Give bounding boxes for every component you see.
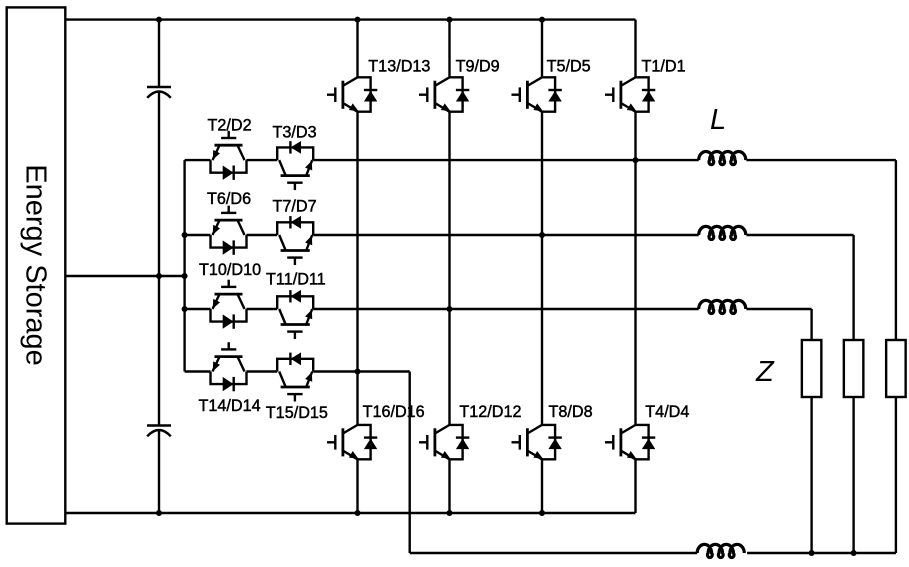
- wire column 2 bottom: [448, 459, 450, 513]
- junction dot bottom rail Z1: [809, 550, 815, 556]
- svg-text:T11/D11: T11/D11: [266, 270, 326, 288]
- wire Z1 bottom lead: [810, 397, 812, 553]
- junction dot bottom rail Z2: [851, 550, 857, 556]
- wire row 2 bus to T6: [185, 234, 211, 236]
- igbt T13/D13: [327, 77, 377, 111]
- junction dot row4 col1: [355, 369, 361, 375]
- wire row 2 inductor to corner: [746, 234, 853, 236]
- wire Z3 bottom lead: [895, 397, 897, 553]
- wire column 3 bottom: [541, 459, 543, 513]
- wire row 4 T15 to step: [313, 370, 410, 372]
- wire bottom DC- rail: [65, 512, 635, 514]
- resistor Z2: [844, 340, 864, 397]
- wire capacitor rail lower: [158, 431, 160, 513]
- wire column 4 top: [634, 20, 636, 78]
- wire mid feed from energy storage: [65, 275, 184, 277]
- wire row 1 bus to T2: [185, 159, 211, 161]
- svg-text:T9/D9: T9/D9: [456, 58, 500, 76]
- wire row 2 down to Z2: [852, 235, 854, 340]
- wire row 1 T2 to T3: [246, 159, 277, 161]
- wire capacitor rail upper: [158, 20, 160, 87]
- igbt T15/D15: [277, 352, 313, 401]
- junction dot bottom rail col3: [539, 510, 545, 516]
- inductor L phase 1: [699, 151, 746, 164]
- igbt T7/D7: [277, 216, 313, 265]
- igbt T11/D11: [277, 290, 313, 339]
- wire column 1 bottom: [356, 459, 358, 513]
- wire column 2 top: [448, 20, 450, 78]
- igbt T5/D5: [512, 77, 562, 111]
- igbt T8/D8: [512, 425, 562, 459]
- wire row 1 inductor to corner: [746, 159, 896, 161]
- svg-text:Energy Storage: Energy Storage: [20, 164, 52, 366]
- resistor Z1: [802, 340, 822, 397]
- igbt T14/D14: [211, 342, 247, 391]
- svg-text:T1/D1: T1/D1: [642, 58, 686, 76]
- svg-text:T6/D6: T6/D6: [207, 190, 251, 208]
- svg-text:T13/D13: T13/D13: [368, 58, 430, 76]
- igbt T16/D16: [327, 425, 377, 459]
- junction dot top rail col3: [539, 17, 545, 23]
- igbt T9/D9: [419, 77, 469, 111]
- igbt T4/D4: [605, 425, 655, 459]
- svg-text:T12/D12: T12/D12: [459, 403, 521, 421]
- svg-text:T14/D14: T14/D14: [199, 397, 261, 415]
- wire column 4 middle: [634, 112, 636, 425]
- junction dot row1 col4: [633, 157, 639, 163]
- inductor L phase 4: [697, 544, 744, 557]
- capacitor C2: [147, 426, 171, 437]
- svg-text:T10/D10: T10/D10: [199, 261, 261, 279]
- svg-text:T16/D16: T16/D16: [363, 403, 425, 421]
- wire row 3 bus to T10: [185, 308, 211, 310]
- wire row 2 T6 to T7: [246, 234, 277, 236]
- svg-text:Z: Z: [755, 356, 775, 388]
- svg-text:T2/D2: T2/D2: [208, 116, 252, 134]
- junction dot left bus row2: [182, 232, 188, 238]
- svg-text:T8/D8: T8/D8: [549, 403, 593, 421]
- igbt T6/D6: [211, 206, 247, 255]
- igbt T1/D1: [605, 77, 655, 111]
- inductor L phase 3: [699, 300, 746, 313]
- junction dot bottom rail col1: [355, 510, 361, 516]
- junction dot top rail cap: [156, 17, 162, 23]
- junction dot bottom rail cap: [156, 510, 162, 516]
- wire row 4 bus to T14: [185, 370, 211, 372]
- wire row 1 T3 to inductor: [313, 159, 699, 161]
- wire row 4 T14 to T15: [246, 370, 277, 372]
- wire column 3 middle: [541, 112, 543, 425]
- wire column 3 top: [541, 20, 543, 78]
- wire bottom phase to inductor: [410, 552, 698, 554]
- capacitor C1: [147, 87, 171, 98]
- igbt T3/D3: [277, 141, 313, 190]
- resistor Z3: [886, 340, 906, 397]
- svg-text:T15/D15: T15/D15: [266, 404, 328, 422]
- wire row 1 down to Z3: [895, 160, 897, 340]
- wire column 1 top: [356, 20, 358, 78]
- junction dot bottom rail col2: [447, 510, 453, 516]
- wire row 3 inductor to corner: [746, 308, 811, 310]
- wire top DC+ rail: [65, 18, 635, 20]
- wire left bus: [183, 160, 185, 371]
- inductor L phase 2: [699, 226, 746, 239]
- svg-text:T5/D5: T5/D5: [547, 58, 591, 76]
- junction dot row3 col2: [447, 306, 453, 312]
- junction dot row2 col3: [539, 232, 545, 238]
- wire row 4 step down: [409, 372, 411, 554]
- junction dot left bus row3: [182, 306, 188, 312]
- junction dot top rail col2: [447, 17, 453, 23]
- energy storage box: [7, 7, 66, 523]
- wire row 3 T11 to inductor: [313, 308, 699, 310]
- wire column 4 bottom: [634, 459, 636, 513]
- svg-text:T7/D7: T7/D7: [273, 197, 317, 215]
- wire bottom inductor to Z3: [747, 552, 896, 554]
- wire column 1 middle: [356, 112, 358, 425]
- junction dot mid wire cap rail: [156, 273, 162, 279]
- igbt T10/D10: [211, 280, 247, 329]
- wire column 2 middle: [448, 112, 450, 425]
- igbt T12/D12: [419, 425, 469, 459]
- wire row 3 T10 to T11: [246, 308, 277, 310]
- igbt T2/D2: [211, 131, 247, 180]
- wire row 2 T7 to inductor: [313, 234, 699, 236]
- wire row 3 down to Z1: [810, 309, 812, 340]
- svg-text:T3/D3: T3/D3: [273, 123, 317, 141]
- svg-text:L: L: [710, 104, 726, 136]
- junction dot top rail col1: [355, 17, 361, 23]
- wire Z2 bottom lead: [852, 397, 854, 553]
- svg-text:T4/D4: T4/D4: [645, 403, 689, 421]
- wire capacitor rail middle: [158, 93, 160, 426]
- junction dot mid wire left bus: [182, 273, 188, 279]
